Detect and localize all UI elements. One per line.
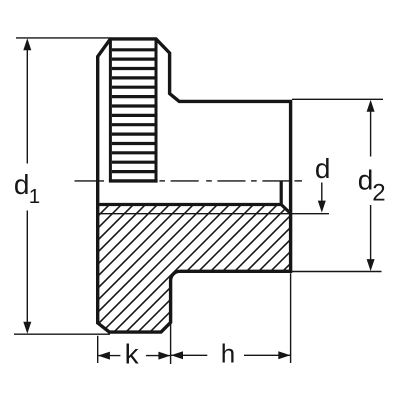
dimension h arrow left — [171, 351, 183, 359]
tapped hole line (thick) — [98, 203, 282, 206]
knurling lines — [112, 50, 155, 172]
thread major-diameter line (thin) — [98, 213, 329, 215]
knurl bottom edge — [109, 179, 158, 182]
knurl chamfer line right — [155, 39, 158, 181]
svg-text:k: k — [125, 339, 140, 370]
dimension d line — [321, 183, 323, 207]
dimension d2 arrow down — [367, 259, 375, 271]
dimension k extension lines — [98, 324, 171, 365]
section hatching (45 deg) — [0, 195, 400, 340]
dimension h line — [171, 354, 290, 356]
svg-text:d: d — [315, 153, 331, 184]
dimension h arrow right — [278, 351, 290, 359]
dimension d1 line — [26, 44, 28, 329]
svg-text:d: d — [14, 169, 30, 200]
part outline (knurled head + collar) — [98, 39, 291, 332]
dimension d2 extension lines — [292, 99, 383, 271]
dimension k line — [98, 355, 170, 357]
dimension d2 arrow up — [367, 100, 375, 112]
dimension k arrow left — [98, 352, 110, 360]
svg-text:h: h — [221, 338, 235, 368]
dimension d arrow down — [318, 201, 326, 213]
dimension d1 arrow down — [23, 322, 31, 334]
dimension h extension line — [290, 273, 292, 363]
dimension k arrow right — [158, 352, 170, 360]
svg-text:2: 2 — [372, 179, 385, 206]
centerline (axis, dash-dot) — [75, 180, 303, 182]
countersink edge vertical — [280, 181, 283, 205]
svg-text:1: 1 — [29, 185, 40, 208]
dimension d1 arrow up — [23, 38, 31, 50]
countersink chamfer — [281, 205, 290, 214]
svg-text:d: d — [358, 165, 374, 196]
dimension d2 line — [370, 105, 372, 266]
knurl chamfer line left — [109, 39, 112, 181]
dimension d1 extension lines — [14, 38, 110, 334]
